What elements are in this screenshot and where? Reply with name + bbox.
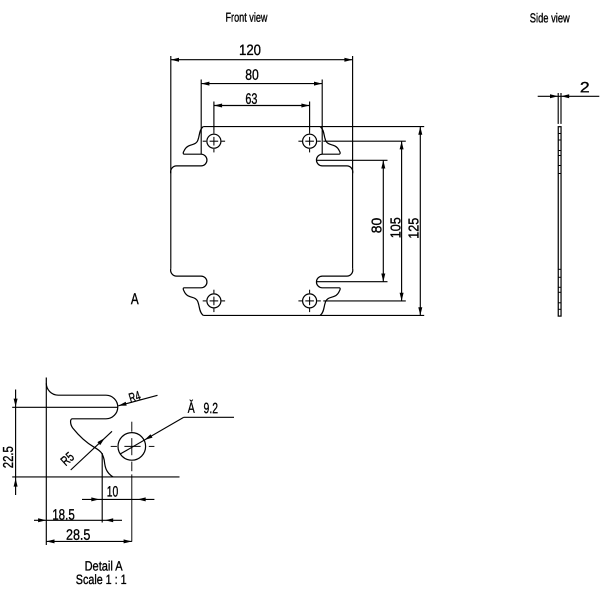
svg-text:125: 125 xyxy=(406,218,423,239)
svg-text:22.5: 22.5 xyxy=(0,446,17,468)
svg-text:80: 80 xyxy=(369,218,386,234)
svg-text:105: 105 xyxy=(388,217,405,238)
svg-text:63: 63 xyxy=(245,91,257,108)
svg-text:Side view: Side view xyxy=(530,10,570,25)
svg-text:18.5: 18.5 xyxy=(52,507,75,524)
svg-text:2: 2 xyxy=(580,79,590,96)
svg-text:Front view: Front view xyxy=(225,10,267,25)
svg-text:80: 80 xyxy=(245,67,259,84)
svg-text:120: 120 xyxy=(239,42,261,59)
svg-text:10: 10 xyxy=(107,483,119,500)
svg-text:Ǎ: Ǎ xyxy=(188,400,195,417)
svg-text:28.5: 28.5 xyxy=(66,527,91,544)
svg-text:9.2: 9.2 xyxy=(204,400,219,417)
svg-text:A: A xyxy=(131,291,139,308)
svg-text:Scale 1 : 1: Scale 1 : 1 xyxy=(76,572,127,587)
